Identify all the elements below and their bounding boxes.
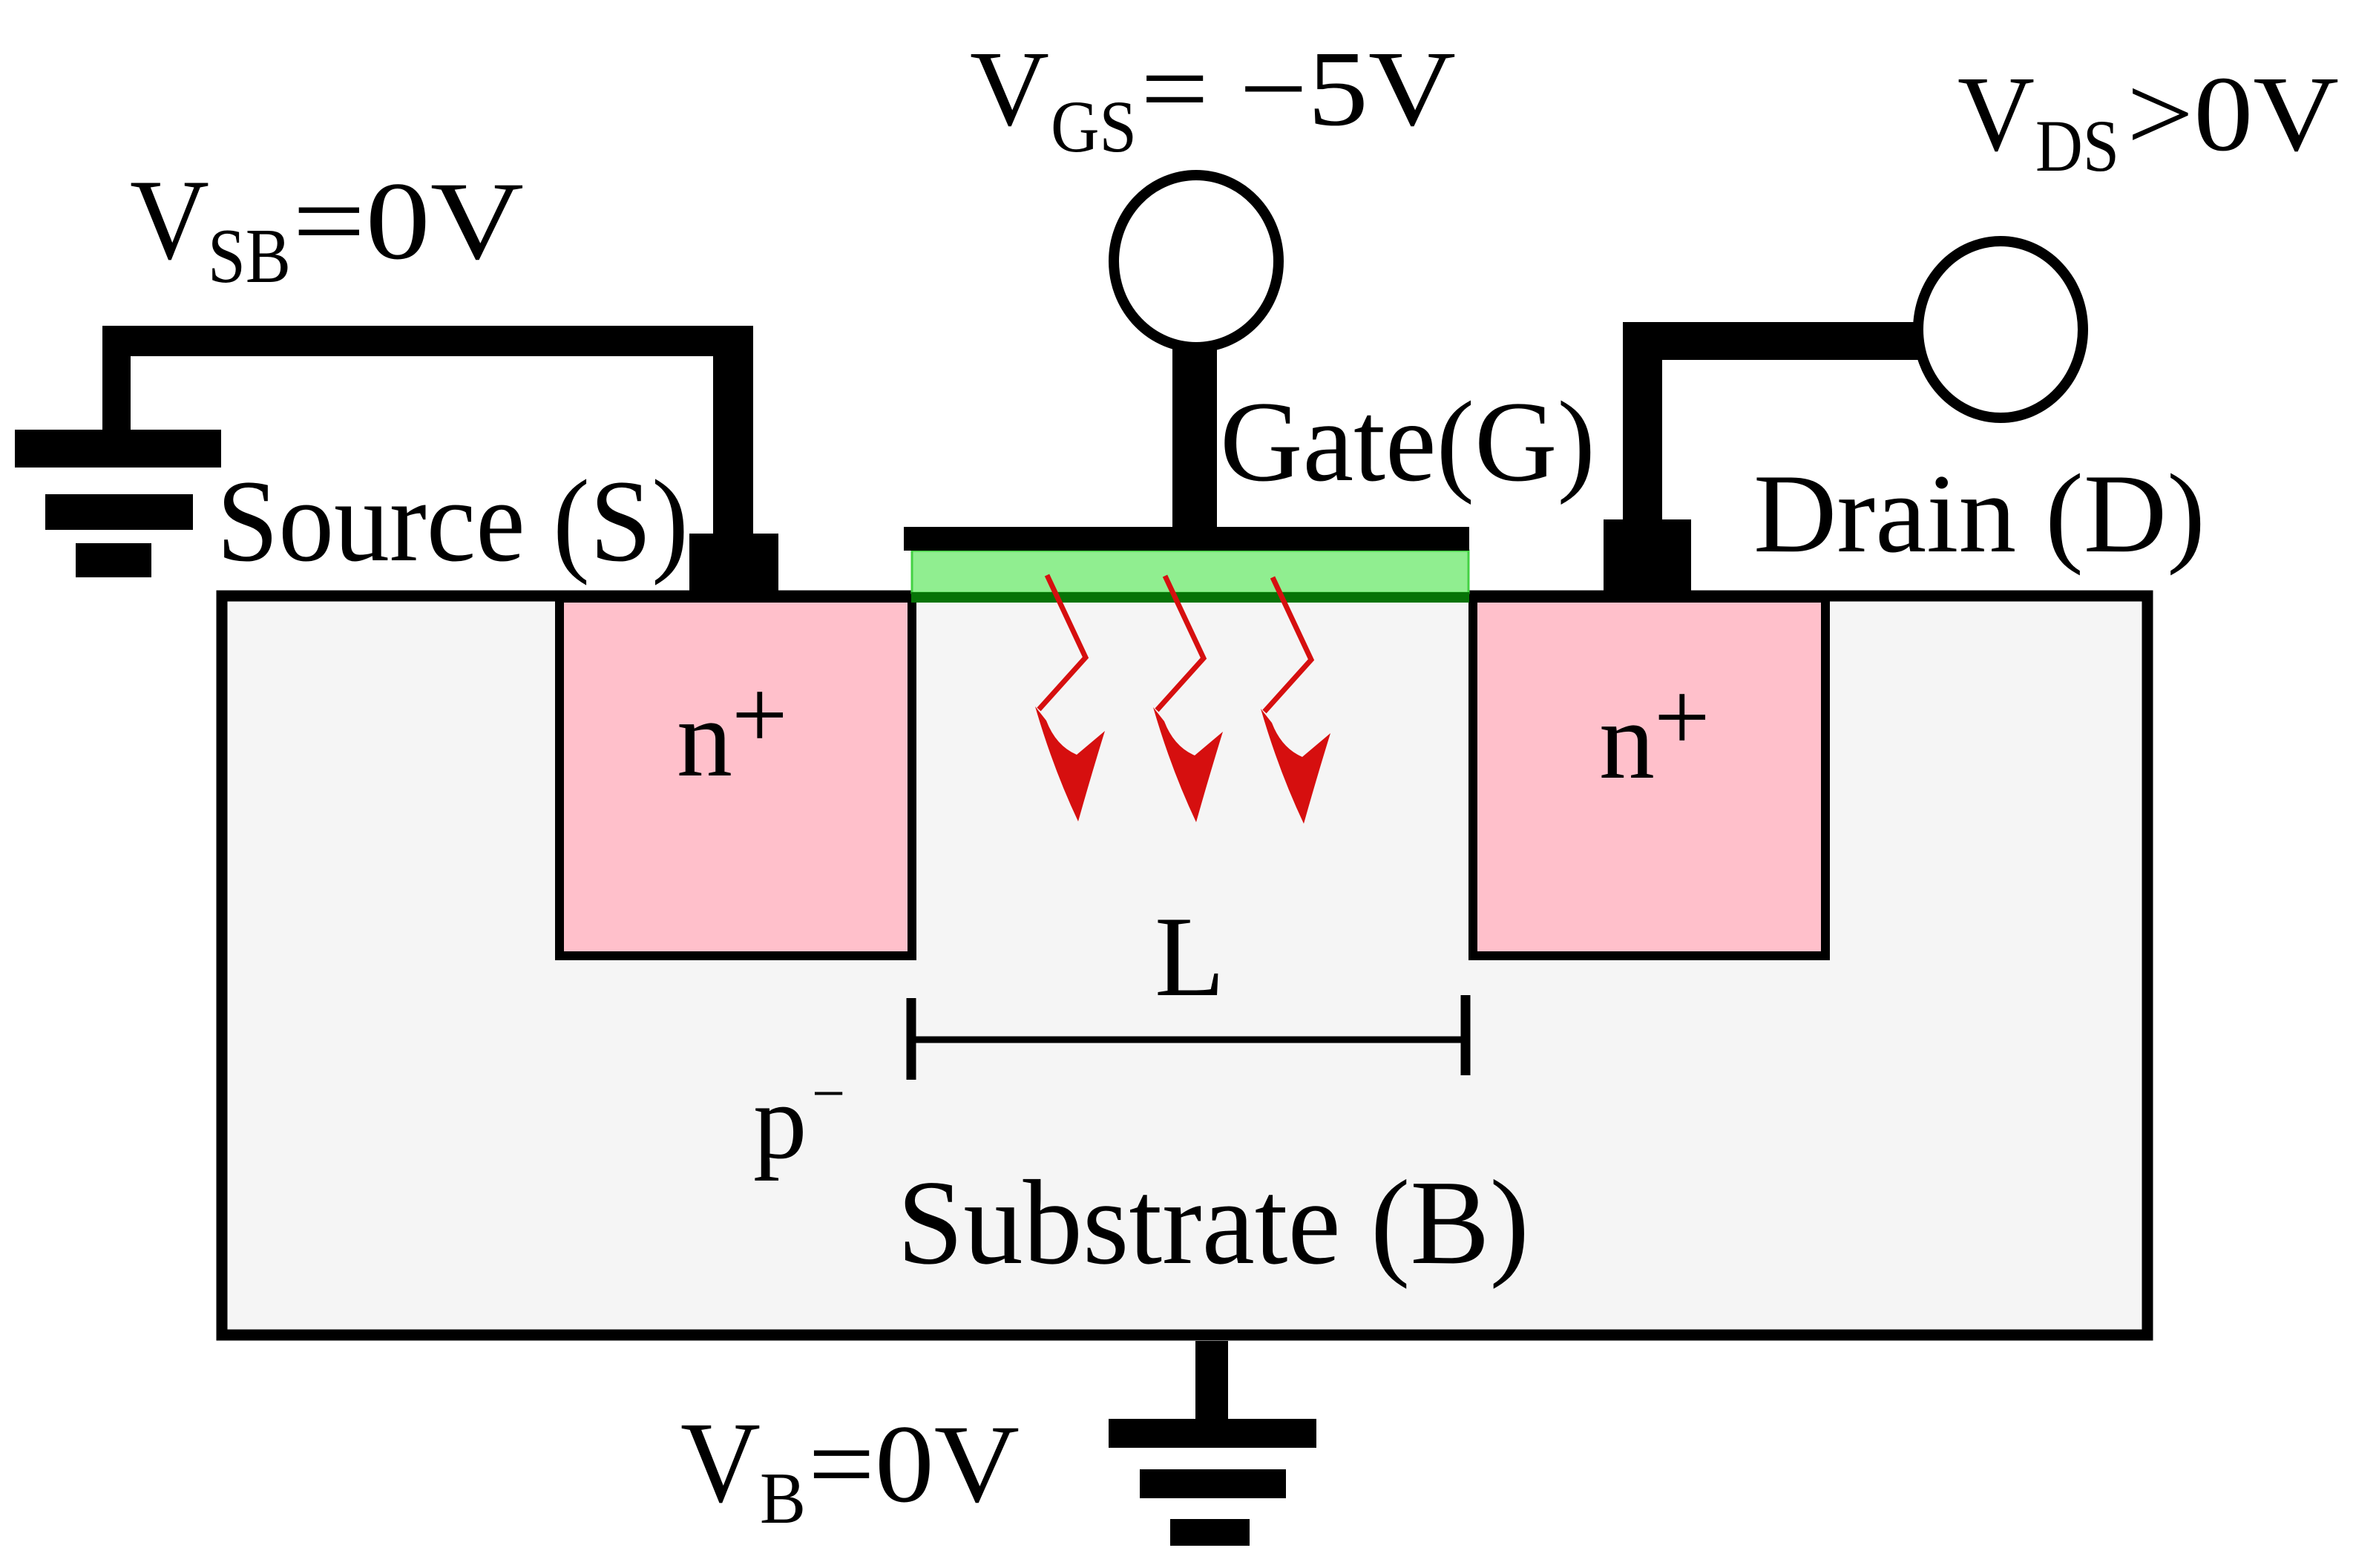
ground symbol (substrate) xyxy=(1109,1419,1316,1448)
channel length dimension L line xyxy=(911,1037,1466,1043)
svg-text:V: V xyxy=(970,30,1049,148)
svg-text:n: n xyxy=(677,677,732,800)
svg-text:V: V xyxy=(130,156,209,283)
svg-text:n: n xyxy=(1599,679,1655,802)
hot-carrier arrow 3 xyxy=(1261,577,1330,824)
svg-text:L: L xyxy=(1155,893,1225,1020)
drain contact xyxy=(1604,519,1691,594)
hot-carrier arrow 2 xyxy=(1153,576,1223,822)
svg-text:p: p xyxy=(753,1063,807,1181)
svg-text:GS: GS xyxy=(1051,85,1137,168)
substrate body (B) xyxy=(222,596,2147,1335)
svg-text:Gate(G): Gate(G) xyxy=(1220,378,1595,505)
svg-text:Substrate (B): Substrate (B) xyxy=(897,1156,1529,1290)
wire source to ground: left drop xyxy=(102,326,131,430)
substrate lead wire (bottom) xyxy=(1195,1341,1228,1419)
svg-text:+: + xyxy=(732,660,788,770)
wire drain to VDS: horizontal to circle xyxy=(1623,322,1918,360)
voltage source VGS circle xyxy=(1114,175,1279,347)
svg-text:SB: SB xyxy=(208,212,291,299)
ground symbol (source side) xyxy=(15,430,221,468)
wire drain to VDS: vertical xyxy=(1623,322,1662,519)
hot-carrier arrow 1 xyxy=(1035,575,1105,821)
gate metal electrode xyxy=(904,527,1469,551)
svg-text:B: B xyxy=(760,1458,806,1539)
voltage source VDS circle xyxy=(1918,241,2083,418)
svg-text:= −5V: = −5V xyxy=(1141,30,1456,148)
gate lead wire xyxy=(1172,346,1217,528)
svg-text:−: − xyxy=(812,1061,845,1126)
svg-text:V: V xyxy=(680,1398,761,1526)
svg-text:V: V xyxy=(1957,55,2035,174)
svg-text:+: + xyxy=(1654,662,1710,772)
n+ drain diffusion xyxy=(1473,598,1825,956)
svg-text:=0V: =0V xyxy=(808,1403,1020,1526)
svg-text:Source (S): Source (S) xyxy=(217,456,689,586)
gate oxide xyxy=(912,551,1468,593)
svg-text:>0V: >0V xyxy=(2127,55,2339,174)
svg-text:DS: DS xyxy=(2035,105,2119,187)
wire source to ground: top horizontal run xyxy=(102,326,753,356)
svg-text:Drain (D): Drain (D) xyxy=(1753,451,2205,576)
wire source to ground: vertical at contact xyxy=(713,326,753,534)
svg-text:=0V: =0V xyxy=(292,160,524,283)
source contact xyxy=(689,534,778,597)
n+ source diffusion xyxy=(559,598,912,956)
